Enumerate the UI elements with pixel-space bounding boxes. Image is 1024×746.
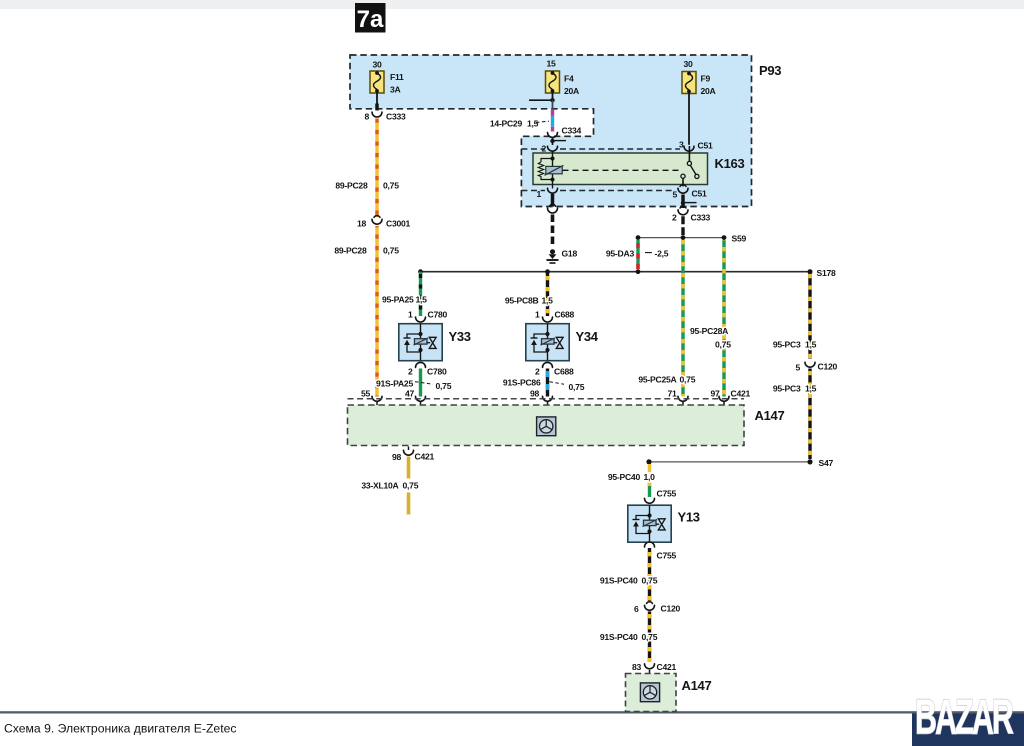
svg-text:95-PC28A: 95-PC28A (690, 326, 728, 336)
svg-text:0,75: 0,75 (642, 632, 658, 642)
svg-text:91S-PC40: 91S-PC40 (600, 576, 638, 586)
svg-text:91S-PC86: 91S-PC86 (503, 378, 541, 388)
svg-text:89-PC28: 89-PC28 (334, 246, 367, 256)
svg-text:33-XL10A: 33-XL10A (361, 481, 398, 491)
svg-text:5: 5 (672, 190, 677, 200)
svg-text:C780: C780 (427, 367, 447, 377)
svg-text:0,75: 0,75 (680, 375, 696, 385)
svg-text:A147: A147 (755, 408, 785, 423)
svg-text:3A: 3A (390, 85, 401, 95)
svg-text:20A: 20A (701, 86, 716, 96)
svg-text:F9: F9 (701, 74, 711, 84)
svg-text:Y13: Y13 (678, 510, 700, 525)
svg-text:0,75: 0,75 (569, 382, 585, 392)
svg-text:15: 15 (546, 59, 556, 69)
svg-text:S178: S178 (817, 268, 837, 278)
svg-text:30: 30 (372, 60, 382, 70)
svg-text:F4: F4 (564, 74, 574, 84)
svg-text:K163: K163 (715, 156, 745, 171)
svg-text:BAZAR: BAZAR (915, 689, 1014, 744)
svg-text:2: 2 (541, 144, 546, 154)
svg-text:C755: C755 (657, 489, 677, 499)
svg-text:C333: C333 (386, 112, 406, 122)
svg-text:71: 71 (667, 389, 677, 399)
svg-text:95-PC8B: 95-PC8B (505, 296, 539, 306)
svg-text:F11: F11 (390, 72, 404, 82)
svg-text:A147: A147 (682, 678, 712, 693)
svg-text:C688: C688 (555, 310, 575, 320)
svg-text:30: 30 (683, 59, 693, 69)
svg-text:P93: P93 (759, 63, 781, 78)
svg-text:89-PC28: 89-PC28 (335, 181, 368, 191)
svg-text:C120: C120 (818, 362, 838, 372)
svg-text:95-DA3: 95-DA3 (606, 249, 635, 259)
svg-text:C51: C51 (698, 141, 713, 151)
svg-text:20A: 20A (564, 86, 579, 96)
svg-text:0,75: 0,75 (642, 576, 658, 586)
svg-text:C421: C421 (731, 389, 751, 399)
svg-text:95-PC40: 95-PC40 (608, 472, 641, 482)
svg-text:C51: C51 (692, 189, 707, 199)
svg-text:95-PA25: 95-PA25 (382, 295, 414, 305)
svg-text:0,75: 0,75 (383, 181, 399, 191)
svg-text:0,75: 0,75 (383, 246, 399, 256)
svg-text:0,75: 0,75 (715, 340, 731, 350)
svg-text:C421: C421 (657, 662, 677, 672)
svg-text:5: 5 (795, 363, 800, 373)
svg-text:55: 55 (361, 389, 371, 399)
svg-text:2: 2 (408, 367, 413, 377)
svg-text:G18: G18 (562, 249, 578, 259)
svg-text:98: 98 (530, 389, 540, 399)
svg-text:1,5: 1,5 (805, 340, 817, 350)
svg-text:C421: C421 (415, 452, 435, 462)
svg-text:Y33: Y33 (449, 329, 471, 344)
svg-text:2: 2 (535, 367, 540, 377)
svg-text:14-PC29: 14-PC29 (490, 119, 523, 129)
svg-text:83: 83 (632, 662, 642, 672)
svg-text:98: 98 (392, 452, 402, 462)
svg-text:Y34: Y34 (576, 329, 599, 344)
svg-text:1,0: 1,0 (644, 472, 656, 482)
svg-text:S47: S47 (819, 458, 834, 468)
svg-text:1: 1 (535, 310, 540, 320)
svg-text:95-PC25A: 95-PC25A (638, 375, 676, 385)
svg-text:6: 6 (634, 604, 639, 614)
svg-text:2: 2 (672, 213, 677, 223)
svg-text:0,75: 0,75 (403, 481, 419, 491)
svg-text:C755: C755 (657, 551, 677, 561)
svg-text:3: 3 (679, 140, 684, 150)
svg-text:1,5: 1,5 (527, 119, 539, 129)
svg-text:C120: C120 (661, 604, 681, 614)
svg-text:1: 1 (536, 189, 541, 199)
svg-text:91S-PC40: 91S-PC40 (600, 632, 638, 642)
svg-text:1: 1 (408, 310, 413, 320)
svg-text:8: 8 (364, 112, 369, 122)
svg-text:C334: C334 (562, 126, 582, 136)
svg-text:47: 47 (405, 389, 415, 399)
svg-text:1,5: 1,5 (542, 296, 554, 306)
svg-text:C780: C780 (428, 310, 448, 320)
svg-text:18: 18 (357, 219, 367, 229)
svg-text:C3001: C3001 (386, 219, 411, 229)
svg-text:C333: C333 (691, 213, 711, 223)
svg-text:Схема 9. Электроника двигателя: Схема 9. Электроника двигателя E-Zetec (4, 722, 236, 736)
svg-text:1,5: 1,5 (805, 384, 817, 394)
svg-text:95-PC3: 95-PC3 (773, 384, 801, 394)
svg-text:7a: 7a (357, 6, 384, 33)
svg-text:0,75: 0,75 (436, 381, 452, 391)
svg-text:C688: C688 (554, 367, 574, 377)
svg-text:1,5: 1,5 (416, 295, 428, 305)
svg-text:91S-PA25: 91S-PA25 (376, 379, 413, 389)
svg-text:S59: S59 (732, 234, 747, 244)
svg-text:95-PC3: 95-PC3 (773, 340, 801, 350)
svg-text:-2,5: -2,5 (655, 249, 669, 259)
